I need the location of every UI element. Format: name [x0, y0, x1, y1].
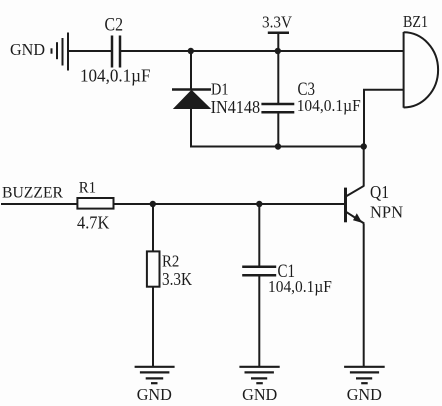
junction: top rail / D1 [188, 48, 194, 54]
svg-text:104,0.1µF: 104,0.1µF [268, 277, 332, 296]
ground symbol (below C1) [239, 367, 279, 383]
svg-text:3.3V: 3.3V [262, 12, 293, 31]
wire: C3 bottom plate down to bottom rail [277, 112, 279, 146]
svg-text:BUZZER: BUZZER [2, 185, 63, 202]
junction: base wire / R2 [150, 201, 156, 207]
junction: base wire / C1 [256, 201, 262, 207]
buzzer BZ1 [404, 32, 439, 108]
ground symbol (below Q1 emitter) [344, 367, 385, 383]
svg-text:104,0.1µF: 104,0.1µF [80, 66, 151, 86]
svg-text:R1: R1 [79, 180, 96, 197]
wire: BUZZER input to R1 [1, 203, 77, 205]
wire: C1 bottom plate down to ground [258, 275, 260, 367]
junction: top rail / 3.3V and C3 [275, 48, 281, 54]
ground symbol (below R2) [135, 367, 175, 383]
resistor R2 [147, 251, 160, 286]
wire: base node down to R2 [152, 204, 154, 251]
diode D1 (cathode bar up, triangle pointing up) [172, 90, 211, 109]
svg-text:3.3K: 3.3K [162, 269, 192, 289]
svg-text:R2: R2 [162, 252, 179, 271]
svg-text:GND: GND [10, 40, 45, 59]
junction: bottom rail / collector branch [361, 143, 367, 149]
ground symbol (rotated, at GND input) [52, 33, 69, 71]
svg-text:D1: D1 [211, 80, 229, 99]
wire: collector branch down to Q1 collector [363, 147, 365, 187]
svg-text:NPN: NPN [370, 203, 403, 222]
resistor R1 [77, 198, 113, 209]
svg-text:C2: C2 [105, 14, 124, 35]
svg-text:GND: GND [242, 385, 277, 404]
wire: buzzer lower terminal to collector branch [364, 90, 404, 147]
svg-text:GND: GND [137, 385, 172, 404]
capacitor C1 [242, 267, 276, 276]
wire: R2 down to ground [152, 287, 154, 367]
transistor Q1 (NPN) [346, 186, 365, 224]
svg-text:Q1: Q1 [370, 182, 389, 202]
wire: Q1 emitter down to ground [363, 224, 365, 367]
svg-text:104,0.1µF: 104,0.1µF [297, 96, 361, 115]
wire: R1 to Q1 base [114, 203, 346, 205]
wire: ground symbol to C2 left plate [68, 50, 111, 52]
power 3.3V symbol [268, 33, 289, 51]
wire: bottom rail (D1 anode to collector node) [191, 146, 364, 148]
junction: bottom rail / C3 [275, 143, 281, 149]
svg-text:BZ1: BZ1 [403, 12, 428, 31]
svg-text:GND: GND [347, 385, 382, 404]
capacitor C3 [261, 104, 294, 112]
svg-text:4.7K: 4.7K [77, 213, 109, 233]
wire: D1 anode down to bottom rail [190, 109, 192, 148]
wire: C2 right plate to buzzer BZ1 (top rail) [121, 50, 404, 52]
wire: top rail to D1 cathode [190, 51, 192, 90]
wire: base node down to C1 top plate [258, 204, 260, 267]
wire: 3.3V node down to C3 top plate [277, 51, 279, 104]
capacitor C2 [112, 36, 120, 68]
svg-text:IN4148: IN4148 [211, 97, 261, 117]
